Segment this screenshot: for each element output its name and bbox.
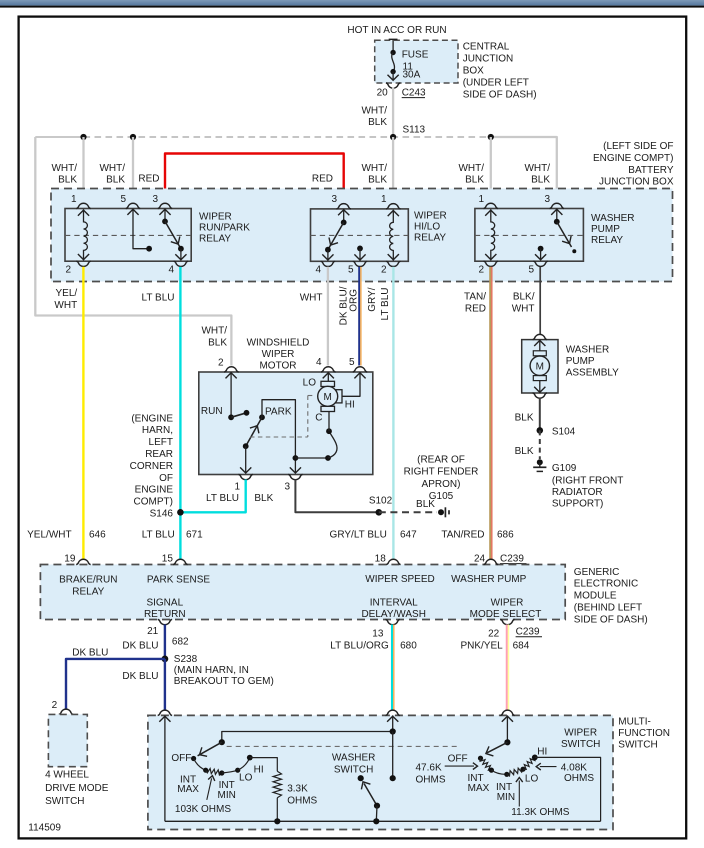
svg-text:WHT: WHT	[512, 304, 535, 315]
svg-text:PNK/YEL: PNK/YEL	[460, 640, 503, 651]
svg-text:24: 24	[474, 554, 486, 565]
motor M1 WINDSHIELD WIPER MOTOR box	[199, 372, 373, 475]
label HOT IN ACC OR RUN	[347, 25, 446, 36]
resistor 103K between INT MAX and INT MIN	[206, 769, 225, 776]
svg-text:20: 20	[377, 88, 389, 99]
label WASHER SWITCH	[332, 753, 376, 776]
multifunction pin bump (DK BLU)	[158, 710, 172, 715]
svg-text:2: 2	[218, 358, 224, 369]
svg-text:LT BLU/ORG: LT BLU/ORG	[330, 640, 389, 651]
svg-text:OF: OF	[159, 473, 173, 484]
svg-text:18: 18	[375, 554, 387, 565]
relay K2 pin 1 bump	[386, 204, 400, 209]
svg-text:BLK: BLK	[106, 175, 125, 186]
relay K2 pin 5 contact	[354, 246, 365, 261]
label LT BLU (top)	[142, 293, 175, 304]
motor pin 2 bump	[224, 367, 238, 372]
svg-text:PARK SENSE: PARK SENSE	[147, 575, 210, 586]
svg-text:5: 5	[348, 265, 354, 276]
svg-text:WIPER: WIPER	[262, 349, 295, 360]
svg-text:WHT/: WHT/	[201, 326, 227, 337]
svg-text:4.08K: 4.08K	[561, 763, 587, 774]
svg-text:DRIVE MODE: DRIVE MODE	[45, 783, 109, 794]
svg-text:YEL/: YEL/	[56, 288, 78, 299]
relay K1 pin 2 number	[65, 265, 71, 276]
label 103K OHMS	[175, 804, 231, 815]
label C (common brush)	[315, 413, 322, 424]
motor pin 1 number	[234, 482, 240, 493]
svg-text:PUMP: PUMP	[591, 224, 620, 235]
svg-text:M: M	[324, 392, 332, 403]
relay K2 pin 2 number	[381, 265, 387, 276]
label 47.6K OHMS	[416, 762, 446, 785]
label DK BLU (below S238)	[122, 671, 158, 682]
relay K1 pin 3 number	[152, 194, 158, 205]
relay K2 coil	[388, 210, 399, 261]
wire BLK S104 to G109 (dashed)	[539, 430, 541, 459]
wire WHT relay2 pin4 to motor pin4	[327, 267, 329, 366]
svg-text:WIPER: WIPER	[564, 728, 597, 739]
svg-text:1: 1	[381, 194, 387, 205]
label WHT/BLK (motor pin2)	[201, 326, 227, 349]
label 682	[172, 637, 189, 648]
GEM label INTERVAL DELAY/WASH	[361, 597, 425, 620]
svg-text:13: 13	[372, 629, 384, 640]
right wiper switch arm	[486, 742, 508, 756]
multifunction pin bump (PNK/YEL)	[500, 710, 514, 715]
svg-text:APRON): APRON)	[422, 479, 461, 490]
label 4.08K OHMS	[561, 763, 595, 785]
motor pin 5 number	[349, 357, 355, 368]
text (ENGINE HARN...) S146	[130, 413, 174, 519]
svg-text:DK BLU: DK BLU	[122, 641, 158, 652]
svg-text:FUSE: FUSE	[402, 50, 429, 61]
battery junction box label	[593, 141, 674, 188]
wire DK BLU S238 to multifunction switch	[164, 659, 166, 711]
junction node (run/park relay pin 1)	[80, 134, 86, 140]
svg-text:(LEFT SIDE OF: (LEFT SIDE OF	[603, 141, 673, 152]
node S113	[390, 134, 396, 140]
svg-text:PARK: PARK	[265, 407, 292, 418]
svg-text:3: 3	[152, 194, 158, 205]
svg-text:RELAY: RELAY	[199, 234, 231, 245]
svg-text:GRY/: GRY/	[367, 287, 378, 311]
label S238 (MAIN HARN...)	[174, 654, 274, 687]
junction node (washer pump relay pin 1)	[488, 134, 494, 140]
relay K3 pin 3 number	[544, 194, 550, 205]
motor park wire to pin 3	[262, 400, 301, 474]
GEM pin 24 number	[474, 554, 486, 565]
left OFF contact	[191, 756, 196, 761]
svg-text:RED: RED	[312, 174, 333, 185]
svg-text:HOT IN ACC OR RUN: HOT IN ACC OR RUN	[347, 25, 446, 36]
label HI (right)	[537, 747, 547, 758]
svg-text:BLK: BLK	[368, 117, 387, 128]
svg-text:671: 671	[186, 529, 203, 540]
GEM pin 19 number	[64, 554, 76, 565]
GEM label SIGNAL RETURN	[144, 597, 186, 620]
wire LT BLU/ORG GEM pin13 to multifunction switch	[392, 625, 394, 711]
relay K3 pin 3 bump	[550, 203, 564, 208]
wire WHT/BLK to hi/lo relay pin 1	[392, 137, 394, 203]
svg-text:WIPER: WIPER	[414, 211, 447, 222]
washer pump motor	[530, 340, 549, 393]
label INT MIN (right)	[496, 782, 515, 803]
wire BLK pump to S104	[539, 398, 541, 430]
svg-text:WHT/: WHT/	[361, 106, 387, 117]
pin 20 bump C243	[386, 83, 400, 88]
node feed junction	[390, 728, 396, 734]
multifunction pin bump (LT BLU/ORG)	[386, 710, 400, 715]
relay K1 pin 5 contact	[127, 209, 152, 252]
svg-text:SWITCH: SWITCH	[45, 796, 84, 807]
relay K1 coil	[78, 209, 89, 260]
relay K3 pin 5 number	[528, 265, 534, 276]
svg-text:21: 21	[147, 626, 159, 637]
svg-text:WIPER: WIPER	[199, 212, 232, 223]
wire BLK/WHT relay3 pin5 to washer pump	[539, 267, 541, 334]
relay K1 label	[199, 212, 250, 245]
relay K1 pin 5 bump	[126, 203, 140, 208]
svg-text:2: 2	[52, 700, 58, 711]
fuse value label	[402, 50, 429, 81]
right wiper switch pivot feed	[502, 715, 513, 742]
svg-text:S146: S146	[150, 509, 174, 520]
GEM module label	[574, 567, 648, 626]
label TAN/RED 686	[441, 529, 514, 540]
connector C239 label (bottom)	[516, 627, 542, 638]
svg-text:BLK: BLK	[465, 175, 484, 186]
GEM pin 19 bump	[76, 559, 90, 564]
node S102	[376, 509, 383, 516]
motor pin 1 bump	[239, 474, 253, 479]
label WIPER SWITCH (right)	[561, 728, 600, 751]
label DK BLU/ORG (rotated)	[339, 286, 360, 325]
svg-text:11.3K OHMS: 11.3K OHMS	[511, 807, 569, 818]
wire GRY/LT BLU relay2 pin2 to GEM pin18	[392, 267, 394, 559]
GEM pin 21 number	[147, 626, 159, 637]
wire WHT/BLK fuse to S113	[392, 88, 394, 138]
svg-text:HI/LO: HI/LO	[414, 222, 440, 233]
label LT BLU/ORG 680	[330, 640, 417, 651]
svg-text:5: 5	[528, 265, 534, 276]
label INT MIN (left)	[218, 780, 236, 801]
label PNK/YEL 684	[460, 640, 529, 651]
svg-text:WHT: WHT	[300, 293, 323, 304]
svg-text:WASHER PUMP: WASHER PUMP	[451, 574, 527, 585]
svg-text:647: 647	[400, 529, 417, 540]
wire DK BLU GEM pin21 to S238	[164, 625, 166, 659]
svg-text:ELECTRONIC: ELECTRONIC	[574, 579, 638, 590]
svg-text:RIGHT FENDER: RIGHT FENDER	[404, 467, 479, 478]
svg-text:2: 2	[65, 265, 71, 276]
svg-text:SUPPORT): SUPPORT)	[552, 499, 604, 510]
wire WHT/BLK to washer relay pin 1	[490, 137, 492, 203]
svg-text:GRY/LT BLU: GRY/LT BLU	[330, 529, 387, 540]
svg-text:GENERIC: GENERIC	[574, 567, 620, 578]
svg-text:BLK: BLK	[254, 493, 273, 504]
motor pin 5 wire to HI brush	[342, 372, 366, 396]
label WASHER PUMP ASSEMBLY	[566, 345, 619, 379]
GEM pin 15 bump	[173, 559, 187, 564]
svg-text:22: 22	[488, 629, 500, 640]
label HI (motor)	[345, 400, 355, 411]
svg-text:BLK: BLK	[368, 175, 387, 186]
wire WHT/BLK to run/park relay pin 1	[82, 137, 84, 203]
label INT MAX (left)	[177, 775, 199, 795]
relay K3 pin 1 number	[478, 194, 484, 205]
svg-text:OHMS: OHMS	[416, 775, 446, 786]
motor pin 3 number	[284, 482, 290, 493]
central junction box (fuse) dashed box	[375, 40, 458, 83]
svg-text:684: 684	[513, 640, 530, 651]
svg-text:S113: S113	[403, 125, 426, 136]
svg-text:2: 2	[381, 265, 387, 276]
svg-text:LO: LO	[239, 773, 253, 784]
wire DK BLU/ORG relay2 pin5 to motor pin5	[359, 267, 361, 366]
svg-text:BLK: BLK	[531, 175, 550, 186]
svg-text:RELAY: RELAY	[591, 235, 623, 246]
motor pin 3 bump	[288, 474, 302, 479]
GEM pin 13 number	[372, 629, 384, 640]
label HI (left)	[254, 765, 264, 776]
label GRY/LT BLU 647	[330, 529, 418, 540]
svg-text:WHT/: WHT/	[524, 163, 550, 174]
svg-text:RELAY: RELAY	[414, 233, 446, 244]
svg-text:(BEHIND LEFT: (BEHIND LEFT	[574, 603, 642, 614]
svg-text:103K OHMS: 103K OHMS	[175, 804, 231, 815]
label WHT/BLK (relay1 pin1)	[51, 163, 77, 186]
label WHT/BLK (relay2 pin1)	[361, 163, 387, 186]
GEM pin 21 bump	[158, 619, 172, 624]
relay K3 internal dashed line	[475, 234, 584, 236]
svg-text:M: M	[536, 362, 544, 373]
svg-text:WASHER: WASHER	[332, 753, 376, 764]
svg-text:BLK: BLK	[58, 175, 77, 186]
motor pin 2 number	[218, 358, 224, 369]
svg-text:5: 5	[349, 357, 355, 368]
svg-text:JUNCTION: JUNCTION	[463, 53, 514, 64]
svg-text:RADIATOR: RADIATOR	[552, 487, 603, 498]
bus S113 solid right segment to washer relay pin 3	[491, 137, 557, 203]
svg-text:BLK: BLK	[515, 446, 534, 457]
GEM pin 15 number	[162, 554, 174, 565]
svg-text:3: 3	[544, 194, 550, 205]
svg-text:RED: RED	[465, 304, 486, 315]
wire BLK S102 to G105 (dashed)	[379, 511, 437, 513]
wire PNK/YEL GEM pin22 to multifunction switch	[507, 625, 509, 711]
svg-text:WHT/: WHT/	[51, 163, 77, 174]
svg-text:(RIGHT FRONT: (RIGHT FRONT	[552, 475, 623, 486]
label S113	[403, 125, 426, 136]
svg-text:19: 19	[64, 554, 76, 565]
svg-text:BLK: BLK	[208, 338, 227, 349]
node S104	[537, 427, 544, 434]
svg-text:680: 680	[400, 640, 417, 651]
svg-text:HI: HI	[345, 400, 355, 411]
svg-text:WHT/: WHT/	[458, 163, 484, 174]
left contact arc OFF to INT MAX	[194, 759, 209, 773]
ground G105	[438, 507, 449, 517]
text (REAR OF RIGHT FENDER APRON) G105	[404, 454, 479, 502]
relay K1 pin 3 bump	[158, 203, 172, 208]
GEM pin 13 bump	[386, 619, 400, 624]
svg-text:S104: S104	[552, 426, 576, 437]
relay K2 pin 4 number	[315, 265, 321, 276]
wire BLK motor pin3 to S102	[295, 480, 378, 513]
4 wheel drive mode switch dashed box	[48, 714, 87, 766]
motor pin 5 bump	[353, 367, 367, 372]
svg-text:4: 4	[168, 265, 174, 276]
svg-text:HI: HI	[537, 747, 547, 758]
relay K1 pin 1 bump	[76, 203, 90, 208]
svg-text:BOX: BOX	[463, 65, 484, 76]
label YEL/WHT (top)	[54, 288, 77, 311]
relay K2 pin 4 bump	[321, 261, 335, 266]
pointer 4.08K	[536, 763, 556, 770]
svg-text:1: 1	[478, 194, 484, 205]
svg-text:4: 4	[315, 265, 321, 276]
wiper switch feed line	[222, 732, 393, 743]
label WHT/BLK (fuse output)	[361, 106, 387, 129]
motor RUN contact	[226, 372, 250, 420]
GEM pin 22 bump	[500, 619, 514, 624]
svg-text:MODULE: MODULE	[574, 591, 617, 602]
node S146	[177, 509, 184, 516]
relay K3 label	[591, 213, 635, 246]
svg-text:MIN: MIN	[218, 790, 236, 801]
label WHT	[300, 293, 323, 304]
label WHT/BLK (relay3 pin1)	[458, 163, 484, 186]
svg-text:RUN: RUN	[201, 406, 223, 417]
svg-text:MODE SELECT: MODE SELECT	[470, 609, 542, 620]
wire RED relay1 pin3 to relay2 pin3	[165, 154, 344, 203]
svg-text:FUNCTION: FUNCTION	[618, 728, 670, 739]
svg-text:C239: C239	[516, 627, 540, 638]
wire WHT/BLK branch to wiper motor pin 2	[35, 137, 231, 366]
label WHT/BLK (relay1 pin5)	[99, 163, 125, 186]
svg-text:3: 3	[331, 194, 337, 205]
label YEL/WHT 646	[27, 529, 106, 540]
pointer 11.3K	[516, 778, 523, 807]
right OFF contact	[478, 756, 483, 761]
label LT BLU 671	[142, 529, 203, 540]
relay K1 pin 4 bump	[174, 261, 188, 266]
label PARK	[265, 407, 292, 418]
svg-text:LT BLU: LT BLU	[380, 288, 391, 321]
svg-text:BREAKOUT TO GEM): BREAKOUT TO GEM)	[174, 676, 274, 687]
GEM label WIPER MODE SELECT	[470, 597, 542, 620]
label GRY/LT BLU (rotated)	[367, 287, 391, 320]
GEM label BRAKE/RUN RELAY	[59, 575, 117, 598]
svg-text:WIPER: WIPER	[491, 597, 524, 608]
svg-text:DELAY/WASH: DELAY/WASH	[361, 609, 425, 620]
wire YEL/WHT relay1 pin2 to GEM pin19	[82, 267, 84, 559]
svg-text:DK BLU: DK BLU	[122, 671, 158, 682]
label 4 WHEEL DRIVE MODE SWITCH	[45, 769, 109, 807]
relay K1 pin 1 number	[71, 194, 77, 205]
svg-text:S102: S102	[369, 496, 393, 507]
GEM pin 22 number	[488, 629, 500, 640]
resistor 47.6K between OFF and INT MAX	[480, 758, 494, 773]
svg-text:MIN: MIN	[497, 792, 515, 803]
svg-text:C243: C243	[402, 88, 426, 99]
svg-text:BLK: BLK	[515, 413, 534, 424]
label WHT/BLK (relay3 pin3)	[524, 163, 550, 186]
label G109 (RIGHT FRONT RADIATOR SUPPORT)	[552, 463, 623, 510]
wire WHT/BLK to run/park relay pin 5	[132, 137, 134, 203]
svg-text:DK BLU: DK BLU	[72, 648, 108, 659]
label DK BLU (pin 21)	[122, 641, 158, 652]
GEM label WASHER PUMP	[451, 574, 527, 585]
label BLK/WHT	[512, 292, 535, 315]
svg-text:SIDE OF DASH): SIDE OF DASH)	[463, 89, 537, 100]
svg-text:REAR: REAR	[145, 449, 173, 460]
svg-text:CORNER: CORNER	[130, 461, 173, 472]
svg-text:SIDE OF DASH): SIDE OF DASH)	[574, 614, 648, 625]
motor mechanical linkage dashed	[250, 396, 316, 438]
motor armature M	[318, 381, 342, 411]
motor PARK switch arm	[240, 414, 265, 473]
svg-text:LO: LO	[525, 774, 539, 785]
relay K3 WASHER PUMP RELAY box	[475, 209, 584, 262]
right wiper switch pivot	[504, 739, 510, 745]
label MULTI-FUNCTION SWITCH	[618, 717, 670, 751]
label BLK (pump)	[515, 413, 534, 424]
pointer 103K OHMS	[207, 776, 215, 800]
label RED (left)	[138, 174, 159, 185]
svg-text:YEL/WHT: YEL/WHT	[27, 529, 71, 540]
svg-text:RUN/PARK: RUN/PARK	[199, 223, 250, 234]
label WINDSHIELD WIPER MOTOR	[247, 337, 310, 371]
motor commutator wire	[295, 411, 337, 461]
left wiper switch pivot	[219, 739, 225, 745]
svg-text:MULTI-: MULTI-	[618, 717, 651, 728]
relay K1 switch arm pin3-pin4	[159, 209, 186, 261]
svg-text:(ENGINE: (ENGINE	[131, 413, 173, 424]
svg-text:(REAR OF: (REAR OF	[417, 454, 465, 465]
washer switch pivot	[358, 775, 364, 781]
relay K3 pin 1 bump	[484, 203, 498, 208]
relay K2 pin 5 number	[348, 265, 354, 276]
svg-text:4: 4	[316, 357, 322, 368]
svg-text:HI: HI	[254, 765, 264, 776]
left contact arc LO to HI	[238, 755, 253, 771]
relay K2 pin 2 bump	[386, 261, 400, 266]
wire TAN/RED relay3 pin2 to GEM pin24	[490, 267, 492, 559]
svg-text:ORG: ORG	[349, 289, 360, 312]
svg-text:30A: 30A	[403, 70, 421, 81]
svg-text:SWITCH: SWITCH	[334, 764, 373, 775]
svg-text:COMPT): COMPT)	[134, 497, 173, 508]
relay K2 switch arm pin3-pin4	[322, 209, 349, 261]
bottom bus line	[165, 820, 601, 822]
label S102	[369, 496, 393, 507]
svg-text:646: 646	[89, 529, 106, 540]
svg-text:JUNCTION BOX: JUNCTION BOX	[599, 177, 674, 188]
motor pin 4 bump	[321, 367, 335, 372]
svg-text:LT BLU: LT BLU	[142, 293, 175, 304]
svg-text:G109: G109	[552, 463, 577, 474]
label 3.3K OHMS	[287, 783, 317, 806]
label LT BLU (motor pin1)	[206, 493, 239, 504]
GEM label PARK SENSE	[147, 575, 210, 586]
resistor 11.3K between INT MIN and LO	[507, 767, 526, 776]
svg-text:LEFT: LEFT	[149, 437, 173, 448]
junction node (run/park relay pin 5)	[130, 134, 136, 140]
washer pump top bump	[533, 334, 547, 339]
wire inside: pin13 to wiper switch feed	[387, 715, 398, 731]
